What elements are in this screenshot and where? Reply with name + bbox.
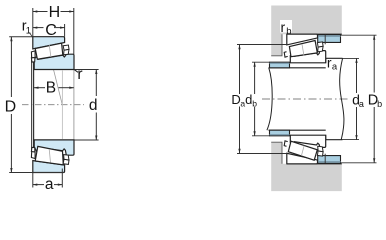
svg-text:D: D (231, 92, 240, 107)
svg-text:1: 1 (26, 25, 31, 36)
shaft shoulder top line (326, 57, 343, 59)
cup (outer ring) top section right view (287, 34, 318, 45)
housing spacer (blue) bottom (318, 156, 341, 164)
collar top shade line (270, 62, 290, 64)
H dimension extension left (32, 8, 34, 37)
housing bore line top (287, 33, 342, 35)
svg-text:a: a (45, 176, 54, 193)
housing top block (271, 6, 342, 56)
svg-text:D: D (5, 99, 17, 116)
Db dimension extension top (341, 34, 377, 36)
r1 leader (29, 33, 32, 38)
Da dimension line upper (239, 45, 241, 94)
db dimension extension bottom (252, 135, 270, 137)
cone back-face silhouette line (73, 70, 75, 140)
cage large-end hook bottom right view (317, 151, 323, 156)
shaft shoulder bottom line (326, 139, 343, 141)
a dimension extension left (32, 173, 34, 188)
shaft top line (269, 67, 326, 69)
Db dimension line upper (373, 35, 375, 92)
da dimension line lower (356, 107, 358, 140)
Da dimension extension bottom (237, 153, 287, 155)
B dimension line (34, 87, 45, 89)
svg-text:b: b (252, 98, 257, 108)
d dimension line upper (95, 70, 97, 97)
cage large-end hook top right view (317, 42, 323, 47)
cup (outer ring) top section (33, 37, 65, 49)
cage small-end hook bottom right view (284, 141, 288, 147)
svg-text:b: b (377, 99, 382, 109)
cage small-end hook bottom (31, 147, 35, 152)
svg-text:a: a (332, 61, 338, 72)
a dimension line (33, 184, 44, 186)
svg-text:b: b (286, 26, 291, 37)
cage large-end silhouette line (61, 71, 63, 140)
d dimension line lower (95, 113, 97, 141)
cone front-face silhouette line (33, 52, 35, 154)
roller small-end foot top (31, 51, 35, 58)
cone (inner ring) top section right view (290, 51, 325, 63)
housing spacer (blue) top (318, 35, 341, 43)
cage large-end hook bottom (63, 159, 69, 164)
roller mid line bottom (49, 149, 50, 163)
D dimension extension bottom (9, 172, 64, 174)
housing bore line bottom (287, 163, 342, 165)
roller top section (35, 43, 63, 59)
roller top section right view (289, 41, 317, 57)
cup (outer ring) bottom section right view (287, 153, 318, 164)
cone (inner ring) bottom section right view (290, 135, 325, 147)
spacer joint line top (324, 35, 326, 45)
db dimension line upper (254, 62, 256, 94)
svg-text:a: a (359, 99, 364, 109)
a dimension extension right (load centre) (61, 169, 63, 188)
shaft bottom line (269, 129, 326, 131)
shaft left break curve (267, 68, 272, 130)
svg-text:C: C (45, 22, 57, 39)
D dimension extension top (9, 36, 33, 38)
svg-text:r: r (77, 66, 82, 83)
cage small-end hook top right view (284, 52, 288, 58)
spacer joint line bottom (324, 154, 326, 163)
D dimension line lower (10, 114, 12, 173)
shaft shoulder face top (325, 58, 327, 63)
housing shoulder outline top (271, 34, 282, 56)
d dimension extension bottom (74, 139, 98, 141)
svg-text:B: B (46, 79, 56, 96)
Da dimension extension top (237, 44, 287, 46)
db dimension extension top (252, 61, 270, 63)
da dimension line upper (356, 58, 358, 93)
Db dimension line lower (373, 107, 375, 163)
cup (outer ring) bottom section (33, 161, 65, 173)
centerline right view (262, 98, 348, 100)
roller mid line top right view (302, 44, 304, 55)
roller mid line bottom right view (301, 146, 304, 156)
svg-text:d: d (89, 97, 98, 114)
roller small-end foot bottom (31, 152, 35, 159)
shaft shoulder face bottom (325, 135, 327, 140)
Da dimension line lower (239, 107, 241, 154)
H dimension line (33, 11, 48, 13)
H dimension extension right (73, 8, 75, 54)
shaft collar (blue) bottom (270, 130, 290, 136)
da dimension extension top (343, 57, 360, 59)
D dimension line upper (10, 37, 12, 97)
C dimension extension right (64, 24, 66, 37)
housing shoulder outline bottom (271, 142, 282, 164)
cone (inner ring) bottom section (34, 140, 74, 155)
svg-text:H: H (49, 4, 61, 21)
shaft right break curve (340, 58, 344, 139)
roller bottom section (35, 146, 63, 165)
da dimension extension bottom (343, 139, 360, 141)
spacer top shade line (318, 35, 341, 37)
rb label knockout (280, 20, 292, 33)
r leader (74, 70, 78, 73)
C dimension line (33, 27, 44, 29)
pressure line (load-centre line) (48, 46, 63, 105)
centerline left view (22, 104, 84, 106)
cage large-end hook top (63, 45, 69, 50)
d dimension extension top (74, 69, 98, 71)
db dimension line lower (254, 107, 256, 136)
shaft collar (blue) top (270, 62, 290, 68)
cone (inner ring) top section (34, 54, 74, 69)
cage small-end hook top (31, 58, 35, 63)
Db dimension extension bottom (341, 162, 377, 164)
housing bottom block (271, 142, 342, 191)
roller bottom section right view (288, 141, 317, 160)
cage small-end silhouette line (31, 55, 33, 151)
collar bottom shade line (270, 134, 290, 136)
roller mid line top (49, 45, 51, 58)
svg-text:r: r (281, 19, 286, 35)
spacer bottom shade line (318, 161, 341, 163)
